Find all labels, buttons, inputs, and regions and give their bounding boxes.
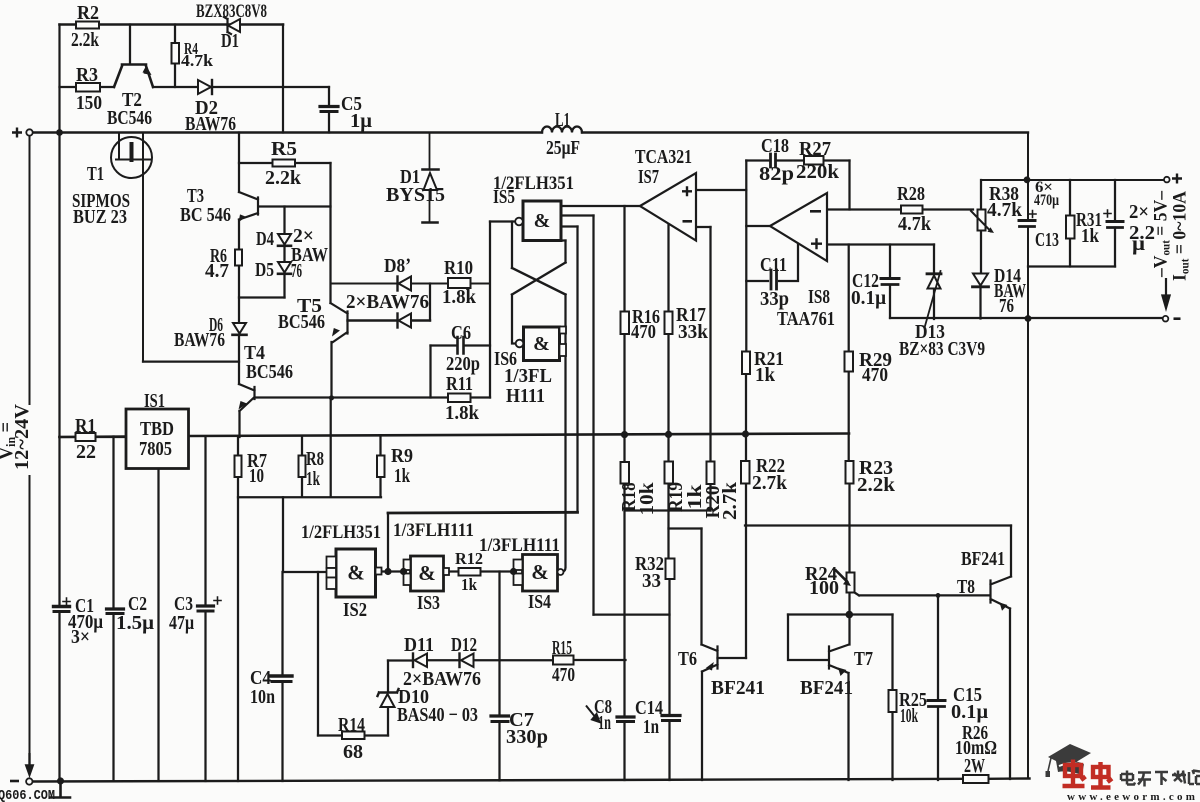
wire T6 base row y=658 [718, 657, 747, 659]
svg-text:7805: 7805 [139, 438, 172, 460]
wire x=59.5 C1 to bottom rail [58, 612, 60, 781]
wire T2 base x=130 [129, 25, 131, 65]
wire bottom rail y=780 [33, 779, 1030, 782]
node dot IS2 output [384, 568, 391, 575]
wire C15 column x=938 [937, 595, 939, 780]
svg-text:C6: C6 [451, 322, 471, 344]
transistor T6 body [702, 645, 718, 672]
svg-text:100: 100 [809, 577, 839, 599]
svg-text:470: 470 [631, 321, 656, 343]
svg-text:R11: R11 [446, 373, 473, 395]
wire T6 collector top row y=528.5 [669, 527, 702, 529]
capacitor C8 [617, 715, 634, 718]
svg-text:&: & [534, 210, 551, 232]
wire x=239 R6 to D6 [238, 266, 240, 324]
transistor T5 emitter arrow [332, 328, 340, 337]
svg-text:BC546: BC546 [278, 311, 325, 333]
MOSFET T1 circle [111, 137, 152, 178]
potentiometer R38 [978, 210, 986, 231]
wire row y=614.6 to R32/C14 column [594, 613, 670, 615]
wire R16 column x=624.5 [623, 206, 625, 780]
wire R23/R24 column x=849.5 [848, 484, 850, 645]
wire IS1 ground x=158.5 [157, 469, 159, 782]
svg-text:R9: R9 [391, 445, 413, 467]
capacitor C5 [320, 105, 338, 108]
diode D12 [461, 654, 474, 668]
wire x=849.5 C18 corner to IS8 minus row [848, 161, 850, 210]
wire IS8 minus / R28 row y=209.5 [828, 208, 973, 210]
svg-text:3×: 3× [71, 626, 90, 648]
diode D14 BAW76 [973, 274, 988, 286]
capacitor C13 [1019, 219, 1035, 222]
wire R5 row y=163 [239, 162, 331, 164]
wire IS2 input row y=572 [283, 571, 326, 573]
wire R18/R20 bottom row y=510.5 [625, 509, 711, 511]
svg-text:R12: R12 [455, 549, 483, 568]
wire cross X left column x=512 [512, 222, 516, 344]
transistor T2 body [114, 65, 153, 88]
resistor R1 [76, 433, 96, 441]
wire IS5 stub1 / IS7 output y=206 [561, 205, 640, 207]
resistor R25 [889, 690, 897, 712]
svg-text:D8ʼ: D8ʼ [384, 255, 411, 277]
svg-text:220p: 220p [446, 353, 480, 375]
svg-text:&: & [531, 560, 549, 584]
svg-text:BC546: BC546 [107, 107, 152, 129]
wire x=239 T3 emitter to R6 [238, 220, 240, 250]
gate IS5 box [523, 201, 561, 241]
svg-text:www.eeworm.com: www.eeworm.com [1067, 791, 1198, 802]
watermark dianzi xiazaizhan characters [1121, 770, 1200, 787]
wire x=330.7 crossing rail (R8R9 row to T4 base row) [330, 398, 332, 497]
label + right terminal [1172, 174, 1182, 184]
resistor R29 [845, 352, 854, 372]
wire C6 left leg x=430.5 [429, 346, 431, 398]
wire D11/D12/R15 row y=660.3 [388, 659, 626, 662]
transistor T2 emitter arrow [143, 66, 151, 74]
wire IS6 to IS4 output column x=565.5 [563, 241, 566, 572]
opamp IS8 minus [810, 210, 821, 213]
svg-text:1k: 1k [394, 465, 411, 487]
capacitor C1 [54, 605, 70, 608]
wire IS5 stub2 y=215.5 [561, 214, 594, 216]
capacitor C2 [107, 607, 124, 610]
wire T6 base column x=746 [745, 526, 747, 659]
diode D11 [415, 654, 428, 668]
resistor R26 [963, 775, 989, 783]
svg-text:25μF: 25μF [546, 137, 580, 159]
gate IS3 input stubs [404, 560, 411, 571]
svg-text:BF241: BF241 [711, 677, 765, 699]
resistor R23 [846, 461, 854, 484]
svg-text:33p: 33p [760, 288, 789, 310]
svg-text:12~24V: 12~24V [11, 403, 33, 470]
resistor R12 [459, 568, 481, 576]
diode D5 [278, 262, 291, 273]
svg-text:R28: R28 [897, 183, 925, 205]
svg-text:330p: 330p [506, 726, 548, 748]
diode D6 [233, 323, 246, 334]
watermark chongchong red characters [1063, 760, 1113, 788]
wire T4 base / R11 row y=397.5 [256, 396, 491, 398]
zener D13 [927, 272, 941, 275]
svg-text:BAS40 − 03: BAS40 − 03 [397, 704, 478, 726]
wire D13 column x=934 [933, 245, 935, 320]
node dot rail R21 [742, 430, 749, 437]
svg-text:68: 68 [343, 741, 363, 763]
wire left input vertical x=29.5 upper [29, 136, 31, 404]
wire long y=525.5 row (R22 to T8 collector) [745, 524, 1011, 526]
wire ground stub below bottom rail [50, 781, 70, 798]
resistor R20 [707, 462, 715, 485]
svg-text:C18: C18 [761, 135, 789, 157]
svg-text:76: 76 [291, 260, 302, 282]
wire left input vertical x=29.5 lower [29, 476, 31, 774]
wire T6 collector x=701.5 [700, 529, 702, 645]
wire C11 loop [746, 244, 798, 281]
svg-text:R10: R10 [444, 257, 473, 279]
gate IS6 right stubs [560, 327, 567, 334]
wire y=266.5 row under C13 [1028, 265, 1115, 267]
svg-text:μ: μ [1132, 233, 1146, 255]
wire D8 pair right corner x=430 [429, 284, 431, 321]
transistor T3 emitter arrow [239, 214, 247, 222]
resistor R4 [172, 43, 180, 64]
diode D8b [399, 314, 412, 328]
wire R17/R19/R32/C14 column x=669 [669, 224, 670, 780]
capacitor C15 [928, 699, 945, 702]
svg-text:76: 76 [999, 295, 1014, 317]
wire IS2 output feedback x=388 [387, 513, 389, 572]
svg-text:10: 10 [249, 465, 264, 487]
wire IS5 stub2 riser x=593.5 [592, 216, 594, 615]
wire IS7 minus stub y=227 [696, 226, 711, 228]
wire right main column x=1028 [1027, 133, 1029, 779]
wire T3 base row y=206.5 [260, 205, 331, 207]
capacitor C14 [662, 714, 680, 717]
opamp IS8 triangle [770, 193, 827, 261]
resistor R17 [665, 312, 673, 335]
wire T7 collector tie row y=614.6 [788, 613, 893, 615]
gate IS6 input bubble [516, 340, 524, 348]
svg-text:2.7k: 2.7k [719, 481, 741, 520]
gate IS5 input bubble [515, 218, 523, 226]
svg-text:BZ×83 C3V9: BZ×83 C3V9 [899, 338, 985, 360]
resistor R16 [621, 312, 630, 335]
svg-text:2×BAW76: 2×BAW76 [403, 668, 481, 690]
svg-text:T1: T1 [87, 163, 104, 185]
svg-text:R3: R3 [76, 64, 98, 86]
svg-text:1/3FL: 1/3FL [504, 365, 552, 387]
capacitor C3 [198, 604, 214, 607]
svg-text:R1: R1 [75, 415, 96, 437]
capacitor C11 [771, 270, 777, 289]
transistor T4 emitter arrow [239, 401, 248, 410]
svg-text:470μ: 470μ [1034, 192, 1059, 209]
svg-text:T7: T7 [854, 648, 873, 670]
svg-text:IS4: IS4 [528, 591, 551, 613]
wire T6 emitter x=702 [701, 672, 703, 781]
wire D5 bottom link y=297.5 [239, 296, 285, 298]
svg-text:TAA761: TAA761 [777, 308, 835, 330]
resistor R7 [235, 456, 242, 478]
transistor T6 emitter arrow [706, 662, 714, 671]
svg-text:BC546: BC546 [246, 361, 293, 383]
svg-text:IS8: IS8 [808, 286, 830, 308]
node dot IS4 input [510, 568, 517, 575]
svg-text:BC 546: BC 546 [180, 204, 231, 226]
wire R4 branch x=175 [174, 25, 176, 88]
svg-text:1/3FLH111: 1/3FLH111 [479, 535, 560, 556]
node dot bottom rail C1 [57, 777, 64, 784]
resistor R28 [901, 206, 923, 214]
transistor T4 body [239, 384, 255, 411]
transistor T1 leads [116, 133, 151, 362]
wire C2 branch x=113.5 [112, 437, 114, 782]
svg-text:T8: T8 [957, 576, 975, 598]
potentiometer R38 arrow [971, 211, 991, 232]
potentiometer R24 arrow [836, 571, 847, 582]
pointer arrow at C8 [586, 706, 600, 723]
svg-text:D1: D1 [221, 30, 239, 52]
wire R38 bottom to D14 to rail x=980.5 [979, 231, 982, 319]
gate IS2 box [336, 549, 376, 597]
svg-text:R5: R5 [271, 138, 297, 160]
svg-text:47μ: 47μ [169, 612, 195, 634]
svg-text:10k: 10k [900, 705, 919, 727]
resistor R21 [742, 352, 750, 375]
resistor R6 [235, 250, 242, 266]
wire R9 leads x=380.5 [379, 436, 381, 497]
transistor T5 body [331, 303, 348, 342]
resistor R8 [299, 456, 306, 478]
svg-text:470: 470 [862, 364, 888, 386]
wire cross X arms [512, 263, 566, 295]
svg-text:1k: 1k [755, 364, 776, 386]
wire R7 leads x=238 [237, 437, 239, 781]
svg-text:D4: D4 [256, 228, 274, 250]
resistor R14 [342, 732, 365, 740]
wire T8 base row y=595.4 [855, 593, 990, 596]
resistor R18 [621, 462, 630, 484]
svg-text:C11: C11 [760, 254, 787, 276]
terminal + left [26, 129, 32, 135]
svg-text:R27: R27 [799, 138, 831, 160]
svg-text:2.2k: 2.2k [71, 29, 100, 51]
watermark graduation cap [1046, 744, 1092, 777]
resistor R5 [273, 160, 296, 167]
current arrow left input [26, 753, 32, 775]
wire C12 column x=890 [889, 245, 891, 319]
resistor R11 [448, 394, 471, 403]
svg-text:1k: 1k [1081, 225, 1100, 247]
resistor R15 [553, 656, 574, 665]
svg-text:4.7k: 4.7k [987, 199, 1023, 221]
svg-text:H111: H111 [506, 385, 545, 407]
transistor T8 emitter arrow [1000, 603, 1008, 611]
resistor R2 [76, 22, 99, 29]
svg-text:D5: D5 [255, 259, 274, 281]
resistor R31 [1066, 216, 1075, 239]
wire IS8 plus row y=244.5 [828, 243, 934, 245]
wire R38 top leg [980, 180, 982, 210]
svg-text:R2: R2 [77, 2, 99, 24]
wire left branch vertical x=59.5 top [58, 25, 60, 133]
capacitor C7 [491, 714, 509, 717]
svg-text:D12: D12 [451, 634, 477, 656]
wire C7 column x=499.5 [498, 572, 500, 781]
capacitor 2x2.2u [1107, 220, 1123, 223]
node dot rail R16 [621, 431, 628, 438]
node dot rail R17 [665, 431, 672, 438]
terminal + right [1164, 177, 1170, 183]
wire C4 branch x=282.5 [281, 572, 283, 781]
svg-text:22: 22 [76, 441, 96, 463]
inductor L1 [542, 127, 582, 133]
wire D8 row y=283.5 [331, 283, 491, 285]
wire IS5 input bubble lead y=221.5 [490, 220, 515, 222]
wire R5 right corner down x=330.5 [329, 163, 331, 303]
wire R14 drop x=318 [317, 572, 319, 736]
wire main rail y=132.5 from + terminal to L1 [33, 131, 542, 133]
svg-text:2.7k: 2.7k [752, 472, 788, 494]
svg-text:10k: 10k [636, 482, 658, 516]
wire IS2 input riser x=283 [282, 497, 284, 572]
wire R3/D2 row y=87 right to C5 corner [153, 86, 329, 88]
wire R31 branch x=1070 [1069, 180, 1071, 267]
svg-text:Q606.COM: Q606.COM [0, 788, 55, 802]
svg-text:2.2k: 2.2k [265, 167, 302, 189]
node dot IS3 input [400, 568, 407, 575]
wire x=239 D6 to T4 [238, 335, 240, 384]
label - right terminal [1174, 317, 1181, 320]
current arrow right output [1162, 278, 1169, 308]
svg-text:TBD: TBD [140, 418, 174, 440]
gate IS4 output bubble [558, 569, 564, 575]
transistor T8 body [991, 577, 1012, 609]
wire T7 loop corner x=788 [788, 615, 828, 661]
svg-text:4.7k: 4.7k [898, 213, 932, 235]
svg-text:10n: 10n [250, 686, 275, 708]
wire D10 column x=388 [387, 661, 389, 736]
wire R29 column x=848.7 [848, 245, 850, 462]
svg-text:R15: R15 [552, 637, 572, 659]
svg-text:T6: T6 [678, 648, 697, 670]
diode D1 BYS15 [429, 133, 431, 223]
transistor T7 emitter arrow [838, 668, 847, 677]
wire R25 column x=892.5 [891, 615, 893, 781]
resistor R9 [377, 456, 385, 478]
transistor T1 inner bar [130, 144, 134, 160]
wire IS2 out to IS3 y=571.5 [381, 570, 404, 572]
wire mid +5V rail y=435 [60, 434, 850, 438]
wire IS8 output y=226 [746, 225, 770, 227]
svg-text:BYS15: BYS15 [386, 184, 445, 206]
wire T8 collector x=1011 [1010, 526, 1012, 577]
svg-text:1k: 1k [461, 575, 477, 594]
svg-text:IS3: IS3 [417, 592, 440, 614]
svg-text:0.1μ: 0.1μ [951, 701, 989, 723]
svg-text:4.7: 4.7 [205, 260, 229, 282]
svg-text:2W: 2W [964, 755, 985, 777]
capacitor C18 [771, 154, 776, 167]
resistor R10 [448, 278, 471, 288]
svg-text:2.2k: 2.2k [857, 474, 896, 496]
wire R20 column x=710.5 [709, 227, 711, 511]
gate IS2 output stub [376, 568, 382, 575]
svg-text:33: 33 [642, 570, 661, 592]
wire R14 row y=735.5 [318, 734, 388, 736]
wire y=180 output top row [981, 179, 1163, 181]
resistor R3 [76, 83, 100, 92]
wire IS5 stub3 riser x=577.5 [576, 227, 578, 513]
capacitor C5 leads [328, 87, 330, 133]
wire R3/D2 row y=87 left [60, 86, 115, 88]
svg-text:1/2FLH351: 1/2FLH351 [301, 522, 381, 543]
svg-text:L1: L1 [555, 109, 570, 131]
svg-text:&: & [533, 333, 550, 355]
svg-text:4.7k: 4.7k [181, 51, 214, 70]
node dot output rail [1025, 315, 1032, 322]
opamp IS7 minus [683, 220, 693, 223]
gate IS4 input stubs [514, 560, 523, 571]
wire IS3 out to R12 [449, 570, 459, 572]
capacitor C6 [458, 337, 464, 354]
svg-text:&: & [418, 561, 436, 585]
svg-text:1.8k: 1.8k [445, 402, 480, 424]
zener D1 BZX83C8V8 [228, 19, 240, 32]
wire x=239 column upper (main rail to T3) [238, 133, 240, 193]
svg-text:&: & [347, 561, 365, 585]
svg-text:D11: D11 [404, 634, 434, 656]
svg-text:BZX83C8V8: BZX83C8V8 [196, 1, 267, 22]
wire C18/R27 row y=160.5 [746, 159, 849, 161]
wire T5 emitter x=331.5 down to T4 base wire [330, 342, 332, 398]
node dot T7 collector [846, 611, 854, 619]
wire D8' row y=320.5 T5 base [348, 319, 431, 321]
capacitor C4 [271, 674, 292, 677]
svg-text:1.8k: 1.8k [442, 286, 477, 308]
gate IS2 input stubs [327, 557, 337, 569]
diode D2 BAW76 [198, 80, 211, 94]
wire IS5 bottom step to X [558, 239, 566, 241]
diode D8 [399, 277, 412, 291]
svg-text:BAW76: BAW76 [185, 113, 236, 135]
wire 2x2.2u branch x=1115 [1114, 180, 1116, 267]
svg-text:1n: 1n [643, 716, 659, 738]
svg-text:1μ: 1μ [350, 110, 373, 132]
svg-text:R8: R8 [306, 448, 324, 470]
node dot T5 emitter T4 base [329, 395, 334, 400]
wire feedback row y=512.5 [388, 511, 578, 515]
svg-text:1n: 1n [598, 712, 611, 734]
svg-text:2×: 2× [1129, 201, 1149, 223]
label - left terminal [10, 780, 19, 783]
svg-text:IS1: IS1 [144, 390, 165, 412]
wire T8 emitter x=1010 [1009, 609, 1011, 780]
gate IS6 box [524, 327, 560, 361]
svg-text:IS2: IS2 [343, 599, 367, 621]
svg-text:1.5μ: 1.5μ [116, 612, 155, 634]
diode D4 [278, 234, 291, 245]
resistor R27 [804, 156, 824, 165]
gate IS4 box [523, 555, 558, 592]
resistor R32 [666, 559, 675, 580]
gate IS3 box [411, 556, 444, 591]
node dot C15 top [936, 593, 941, 598]
opamp IS7 triangle [640, 173, 696, 241]
svg-text:BF241: BF241 [800, 677, 853, 699]
